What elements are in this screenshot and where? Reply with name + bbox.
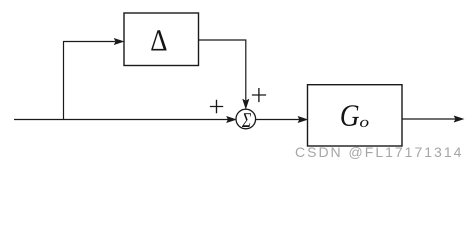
- wire: summing junction to Go block: [256, 116, 308, 122]
- label: plus sign (main input): [210, 100, 223, 113]
- watermark: CSDN @FL17171314: [295, 144, 463, 160]
- svg-text:CSDN @FL17171314: CSDN @FL17171314: [295, 144, 463, 160]
- label: Go: [341, 105, 368, 127]
- summing junction: Sigma: [236, 109, 256, 129]
- wire: output line with arrowhead: [402, 116, 464, 122]
- block U2: Go (nominal plant): [308, 85, 403, 146]
- node: pick-off branch point: [63, 42, 65, 120]
- wire: Delta output down into summing junction: [199, 40, 249, 109]
- wire: branch into Delta block with arrowhead: [63, 38, 124, 44]
- label: plus sign (feedback input): [252, 88, 266, 102]
- block U1: Delta (uncertainty): [124, 13, 199, 66]
- wire: main input line to summing junction: [14, 116, 236, 122]
- label: Delta: [151, 30, 166, 50]
